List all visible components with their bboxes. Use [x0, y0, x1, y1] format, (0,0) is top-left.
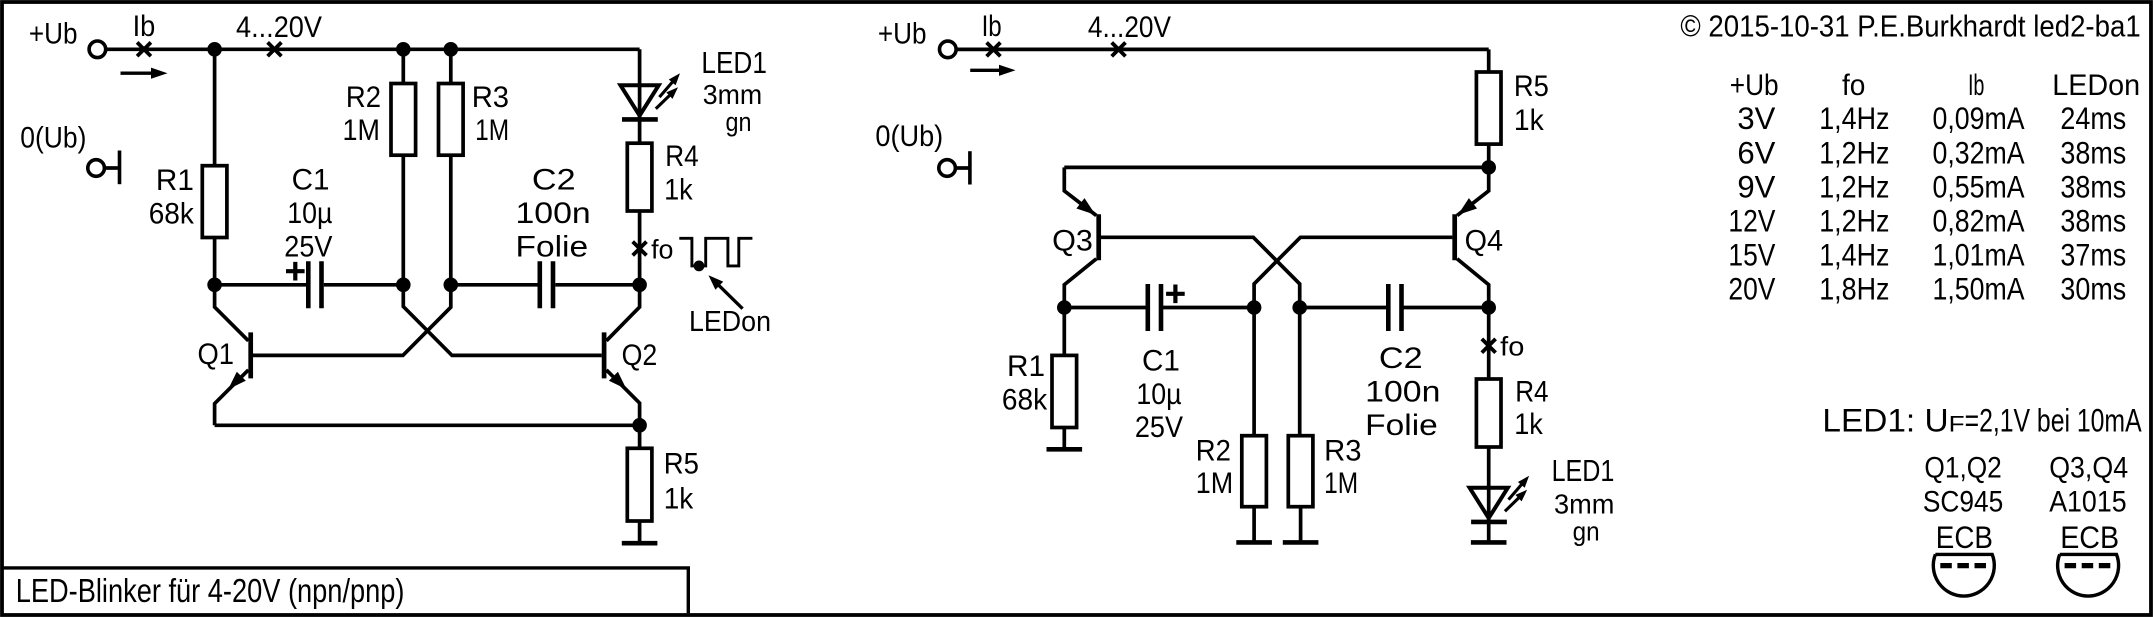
svg-text:A1015: A1015	[2049, 486, 2126, 519]
Q3 emitter arrow (pnp)	[1076, 198, 1095, 215]
node C	[444, 278, 459, 293]
svg-text:gn: gn	[726, 107, 752, 137]
capacitor C1 (right)	[1146, 284, 1151, 331]
wire C2 to node I (right)	[1402, 306, 1489, 310]
svg-text:C2: C2	[1379, 342, 1423, 375]
Q1 emitter wire	[215, 370, 249, 425]
svg-text:0(Ub): 0(Ub)	[875, 120, 943, 153]
polarity + of C1 (left)	[286, 262, 305, 281]
wire C1 to node G (right)	[1161, 306, 1254, 310]
wire node H to R3 (right)	[1298, 308, 1302, 436]
polarity + of C1 (right)	[1166, 285, 1185, 304]
title box	[2, 568, 688, 613]
svg-text:68k: 68k	[149, 198, 195, 231]
measure mark fo (left)	[633, 242, 647, 256]
svg-text:Q2: Q2	[622, 339, 658, 372]
svg-text:25V: 25V	[1135, 411, 1183, 444]
measure mark 4...20V (left)	[268, 42, 282, 56]
svg-text:1,8Hz: 1,8Hz	[1819, 271, 1889, 307]
svg-text:0,82mA: 0,82mA	[1933, 202, 2025, 238]
wire R4 to node D	[638, 211, 642, 285]
svg-text:0,09mA: 0,09mA	[1933, 100, 2025, 136]
svg-text:20V: 20V	[1728, 271, 1775, 307]
TO-92 package outline (SC945)	[1933, 554, 1994, 596]
waveform LEDon (left)	[679, 238, 752, 266]
transistor Q4 base bar	[1452, 214, 1457, 260]
svg-text:1,4Hz: 1,4Hz	[1819, 100, 1889, 136]
svg-text:LED1: LED1	[1552, 453, 1615, 488]
svg-text:C2: C2	[532, 164, 576, 197]
node D	[632, 278, 647, 293]
svg-text:Folie: Folie	[516, 230, 589, 263]
svg-text:1k: 1k	[1514, 408, 1544, 441]
transistor Q2 base bar	[602, 332, 607, 378]
wire R4 to LED1 (right)	[1487, 447, 1491, 522]
wire R1 to ground (right)	[1062, 428, 1066, 450]
svg-text:100n: 100n	[516, 197, 591, 230]
svg-text:Ib: Ib	[133, 10, 156, 43]
svg-text:10µ: 10µ	[1136, 378, 1181, 411]
terminal +Ub (left)	[89, 41, 106, 58]
wire node to R5 (left)	[638, 425, 642, 448]
svg-text:24ms: 24ms	[2060, 100, 2126, 136]
Q3 collector wire	[1064, 259, 1096, 308]
svg-text:LED1: UF=2,1V bei 10mA: LED1: UF=2,1V bei 10mA	[1822, 403, 2142, 439]
wire R2 to node B	[401, 155, 405, 285]
svg-text:R5: R5	[664, 447, 699, 480]
wire rail corner to R5 (right)	[1487, 49, 1491, 72]
Q2 base wire	[403, 285, 602, 356]
node rail-R1 (left)	[207, 42, 222, 57]
LED light arrows (right)	[1505, 496, 1521, 512]
measure mark Ib (left)	[137, 42, 151, 56]
wire node C to C2	[451, 283, 538, 287]
LED LED1 (left) triangle	[621, 85, 659, 115]
Q2 emitter wire	[606, 370, 639, 425]
LED LED1 (right) triangle	[1470, 488, 1508, 518]
terminal +Ub (right)	[940, 41, 957, 58]
resistor R5 (right)	[1476, 72, 1501, 144]
Q3 emitter wire	[1064, 167, 1096, 215]
resistor R2 (right)	[1242, 436, 1267, 507]
svg-text:10µ: 10µ	[287, 197, 332, 230]
svg-text:R5: R5	[1514, 70, 1549, 103]
Q4 base wire	[1254, 237, 1452, 307]
measure mark fo (right)	[1482, 339, 1496, 353]
ground under LED1 (right)	[1471, 540, 1507, 545]
svg-text:R3: R3	[472, 81, 509, 114]
svg-text:0,32mA: 0,32mA	[1933, 134, 2025, 170]
svg-text:1k: 1k	[664, 482, 694, 515]
svg-text:fo: fo	[1500, 331, 1524, 361]
svg-text:ECB: ECB	[1936, 519, 1993, 555]
wire +Ub rail (left)	[106, 47, 640, 51]
pointer arrow LEDon	[717, 283, 743, 309]
waveform low-level dot	[694, 261, 705, 272]
Q4 emitter wire	[1457, 167, 1489, 215]
wire rail to R3	[449, 49, 453, 83]
terminal 0(Ub) (right)	[939, 160, 956, 177]
node emitter-R5 (left)	[632, 418, 647, 433]
emitter rail wire (left)	[215, 423, 640, 427]
Q3 base wire	[1101, 237, 1300, 307]
svg-text:Ib: Ib	[982, 10, 1002, 43]
wire LED1 to R4	[638, 119, 642, 143]
ground under R1 (right)	[1047, 447, 1083, 452]
svg-text:+Ub: +Ub	[878, 18, 927, 51]
resistor R4 (left)	[627, 143, 652, 211]
wire R1 to node A	[213, 238, 217, 285]
svg-text:Q1,Q2: Q1,Q2	[1924, 452, 2001, 485]
svg-text:3V: 3V	[1737, 100, 1775, 136]
node I (C2/R4 right)	[1481, 300, 1496, 315]
svg-text:0(Ub): 0(Ub)	[20, 122, 86, 155]
svg-text:1,2Hz: 1,2Hz	[1819, 134, 1889, 170]
svg-text:68k: 68k	[1002, 383, 1048, 416]
svg-text:R2: R2	[346, 81, 381, 114]
svg-text:Q3,Q4: Q3,Q4	[2049, 452, 2128, 485]
svg-text:1M: 1M	[1196, 467, 1233, 500]
svg-text:1,01mA: 1,01mA	[1933, 237, 2025, 273]
node F (R1/C1 right)	[1057, 300, 1072, 315]
svg-text:37ms: 37ms	[2060, 237, 2126, 273]
ground (left)	[622, 541, 658, 546]
measure mark 4...20V (right)	[1112, 43, 1126, 57]
node G (C1/R2 right)	[1247, 300, 1262, 315]
Q4 emitter arrow (pnp)	[1458, 198, 1477, 215]
Q1 collector wire	[215, 285, 249, 341]
wire node G to R2 (right)	[1252, 308, 1256, 436]
Q1 emitter arrow	[228, 372, 246, 390]
svg-text:Q3: Q3	[1052, 225, 1093, 258]
svg-text:15V: 15V	[1728, 237, 1775, 273]
measure mark Ib (right)	[987, 43, 1001, 57]
svg-text:+Ub: +Ub	[1730, 69, 1779, 102]
svg-text:0,55mA: 0,55mA	[1933, 168, 2025, 204]
wire node F to C1 (right)	[1064, 306, 1147, 310]
LED light arrows (left)	[656, 93, 672, 109]
emitter rail wire (right)	[1064, 166, 1488, 170]
svg-text:3mm: 3mm	[703, 79, 763, 110]
svg-text:LEDon: LEDon	[2052, 69, 2140, 102]
svg-text:R3: R3	[1324, 434, 1361, 467]
svg-text:1M: 1M	[1324, 467, 1358, 500]
svg-text:1,50mA: 1,50mA	[1933, 271, 2025, 307]
wire node A to C1	[215, 283, 306, 287]
svg-text:ECB: ECB	[2060, 519, 2119, 555]
capacitor C1 (left)	[306, 261, 311, 308]
ground under R3 (right)	[1283, 540, 1319, 545]
svg-text:30ms: 30ms	[2060, 271, 2126, 307]
svg-text:fo: fo	[1842, 69, 1865, 102]
wire node I to R4 (right)	[1487, 308, 1491, 380]
resistor R3 (right)	[1288, 436, 1313, 507]
svg-text:+Ub: +Ub	[29, 18, 78, 51]
wire R3 to ground (right)	[1299, 507, 1303, 543]
svg-text:1,4Hz: 1,4Hz	[1819, 237, 1889, 273]
svg-text:Folie: Folie	[1365, 409, 1438, 442]
svg-text:38ms: 38ms	[2060, 202, 2126, 238]
LED LED1 (right) cathode bar	[1471, 520, 1507, 525]
svg-text:fo: fo	[651, 234, 673, 264]
resistor R1 (left)	[202, 166, 227, 238]
capacitor C2 (left)	[537, 261, 542, 308]
resistor R1 (right)	[1052, 355, 1077, 427]
svg-text:R2: R2	[1196, 434, 1231, 467]
resistor R3 (left)	[439, 84, 464, 156]
transistor Q1 base bar	[248, 332, 253, 378]
svg-text:© 2015-10-31 P.E.Burkhardt led: © 2015-10-31 P.E.Burkhardt led2-ba1	[1680, 9, 2140, 44]
node rail-R2 (left)	[396, 42, 411, 57]
svg-text:LED1: LED1	[701, 45, 767, 80]
ground under R2 (right)	[1236, 540, 1272, 545]
svg-text:LEDon: LEDon	[689, 306, 771, 338]
resistor R5 (left)	[627, 448, 652, 521]
svg-text:Q4: Q4	[1465, 225, 1503, 258]
svg-text:Q1: Q1	[198, 338, 235, 371]
svg-text:SC945: SC945	[1923, 486, 2003, 519]
capacitor C2 (right)	[1386, 284, 1391, 331]
svg-text:1,2Hz: 1,2Hz	[1819, 202, 1889, 238]
TO-92 package outline (A1015)	[2058, 554, 2119, 596]
svg-text:R4: R4	[1515, 376, 1548, 409]
svg-text:1M: 1M	[475, 114, 509, 147]
Q1 base wire	[253, 285, 451, 356]
svg-text:38ms: 38ms	[2060, 168, 2126, 204]
svg-text:25V: 25V	[284, 230, 332, 263]
wire node F to R1 (right)	[1062, 308, 1066, 356]
svg-text:1,2Hz: 1,2Hz	[1819, 168, 1889, 204]
node E emitter rail (right)	[1481, 160, 1496, 175]
svg-text:6V: 6V	[1737, 134, 1775, 170]
resistor R2 (left)	[391, 84, 416, 156]
resistor R4 (right)	[1476, 379, 1501, 447]
Q4 collector wire	[1457, 259, 1489, 308]
svg-text:R4: R4	[665, 140, 698, 173]
node rail-R3 (left)	[444, 42, 459, 57]
svg-text:Ib: Ib	[1968, 69, 1985, 102]
wire +Ub rail (right)	[956, 48, 1489, 52]
svg-text:1k: 1k	[664, 174, 693, 207]
wire rail corner to LED1	[638, 49, 642, 119]
node A	[207, 278, 222, 293]
svg-text:3mm: 3mm	[1554, 489, 1614, 520]
transistor Q3 base bar	[1096, 214, 1101, 260]
wire node H to C2 (right)	[1300, 306, 1388, 310]
LED LED1 (left) cathode bar	[622, 117, 658, 122]
wire C1 to node B	[324, 283, 404, 287]
Q2 collector wire	[606, 285, 639, 341]
svg-text:gn: gn	[1573, 517, 1600, 547]
wire rail to R1	[213, 49, 217, 165]
svg-text:1k: 1k	[1514, 104, 1545, 137]
svg-text:1M: 1M	[343, 114, 380, 147]
wire C2 to node D	[555, 283, 639, 287]
svg-text:R1: R1	[156, 164, 194, 197]
terminal 0(Ub) (left)	[88, 160, 105, 177]
svg-text:12V: 12V	[1728, 202, 1775, 238]
node H (R3/C2 right)	[1292, 300, 1307, 315]
svg-text:4...20V: 4...20V	[1088, 11, 1171, 44]
wire R3 to node C	[449, 155, 453, 285]
svg-text:38ms: 38ms	[2060, 134, 2126, 170]
node B	[396, 278, 411, 293]
svg-text:R1: R1	[1007, 350, 1045, 383]
wire R5 to ground (left)	[638, 521, 642, 543]
svg-text:C1: C1	[1142, 344, 1180, 377]
svg-text:100n: 100n	[1365, 376, 1440, 409]
wire LED1 to ground (right)	[1487, 522, 1491, 543]
svg-text:4...20V: 4...20V	[236, 11, 322, 44]
svg-text:LED-Blinker für 4-20V (npn/pnp: LED-Blinker für 4-20V (npn/pnp)	[16, 572, 405, 609]
current arrow Ib (right)	[970, 69, 1000, 72]
wire rail to R2	[401, 49, 405, 83]
current arrow Ib (left)	[121, 71, 153, 74]
wire R2 to ground (right)	[1252, 507, 1256, 543]
svg-text:9V: 9V	[1737, 168, 1775, 204]
wire R5 to node E (right)	[1487, 144, 1491, 167]
Q2 emitter arrow	[609, 372, 627, 390]
svg-text:C1: C1	[292, 164, 330, 197]
